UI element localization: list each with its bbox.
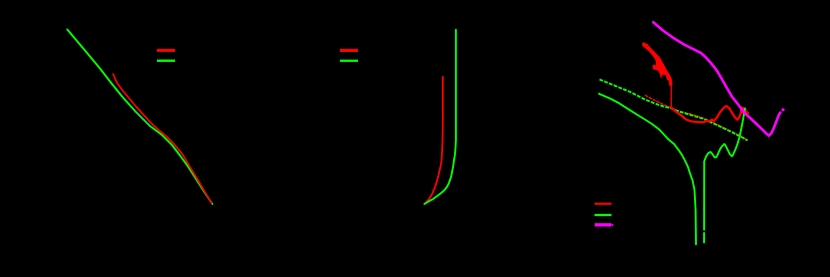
plot3 red jagged burst (643, 43, 672, 86)
plot1 green curve (67, 30, 212, 205)
plot3 solid green curve (599, 94, 696, 245)
plot3 solid green curve after dip (704, 109, 745, 230)
plot2 red curve (424, 77, 442, 204)
plot1 legend red line (157, 49, 175, 52)
plot3 solid green dip right leg stub (703, 233, 705, 243)
plot3 red wiggly curve (671, 106, 748, 122)
plot3 red fit line (645, 95, 748, 140)
plot3 legend magenta line (595, 223, 612, 226)
plot3 legend red line (595, 203, 612, 205)
plot3 magenta curve (653, 22, 780, 135)
plot2 legend green line (340, 60, 358, 62)
plot1 red curve (113, 74, 211, 203)
plot2 green curve (424, 30, 456, 204)
plot2 legend red line (340, 49, 358, 52)
plot3 red vertical drop (670, 82, 672, 108)
plot3 legend magenta nub (611, 224, 613, 226)
plot1 legend green line (157, 60, 175, 62)
plot3 red end blob (740, 107, 747, 114)
plot3 dashed green fit line (600, 80, 748, 141)
plot3 legend green line (595, 214, 612, 216)
plot3 magenta end dot (781, 108, 784, 111)
